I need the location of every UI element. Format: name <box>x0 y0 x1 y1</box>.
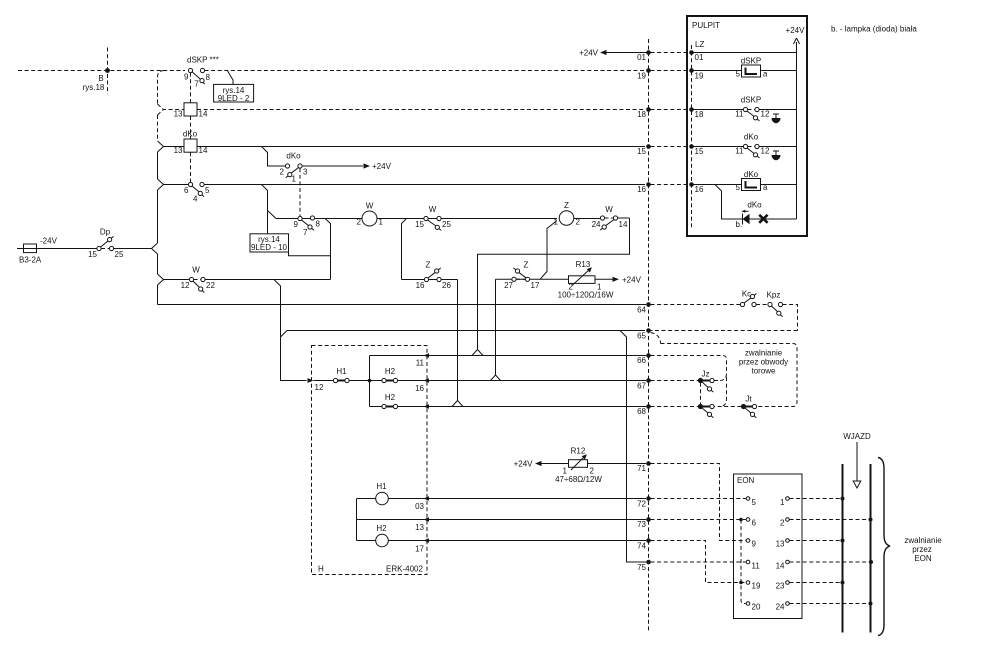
wire Z26 down <box>457 280 459 401</box>
svg-text:LZ: LZ <box>695 40 704 49</box>
svg-text:25: 25 <box>115 250 124 259</box>
svg-text:15: 15 <box>695 147 704 156</box>
buzzer symbol row 18 <box>773 114 779 118</box>
svg-text:przez: przez <box>912 545 932 554</box>
wire row 19 <box>692 70 797 72</box>
wire pin 1 to rail A <box>790 498 843 500</box>
wire Kc to Kpz <box>756 304 768 306</box>
svg-text:66: 66 <box>637 356 646 365</box>
wire node 66 to Jz column <box>651 356 727 407</box>
EON pin 23 <box>786 581 790 585</box>
svg-text:1: 1 <box>554 218 559 227</box>
svg-text:R12: R12 <box>571 447 586 456</box>
svg-text:16: 16 <box>416 281 425 290</box>
branch row16 down <box>262 185 268 234</box>
node 18 <box>646 107 651 112</box>
svg-text:-24V: -24V <box>40 237 58 246</box>
svg-text:03: 03 <box>415 502 424 511</box>
svg-text:67: 67 <box>637 382 646 391</box>
svg-text:H2: H2 <box>385 367 396 376</box>
wire Jz link vertical <box>700 383 702 405</box>
EON pin 24 <box>786 602 790 606</box>
node 72 <box>646 496 651 501</box>
switch 6-5-4 row 16 <box>188 182 192 186</box>
svg-text:14: 14 <box>199 110 208 119</box>
leader to box rys.14 <box>228 71 233 84</box>
svg-text:71: 71 <box>637 464 646 473</box>
wire link 6-20 <box>741 520 746 604</box>
svg-text:Jt: Jt <box>745 395 752 404</box>
wire left vertical lamps <box>356 499 358 541</box>
wire vertical to box top <box>267 211 269 234</box>
wire row 15 <box>692 146 797 148</box>
wire row 13 <box>357 519 428 521</box>
svg-text:5: 5 <box>736 70 741 79</box>
svg-text:Z: Z <box>524 261 529 270</box>
svg-text:2: 2 <box>357 218 362 227</box>
wire pin 12 entry <box>281 375 307 381</box>
buzzer symbol row 15 <box>773 151 779 155</box>
svg-text:68: 68 <box>637 407 646 416</box>
wire row 16 <box>158 179 646 190</box>
svg-text:Jz: Jz <box>702 370 710 379</box>
svg-text:12: 12 <box>181 281 190 290</box>
svg-text:przez obwody: przez obwody <box>739 358 788 367</box>
left bus branch from row 19 <box>158 71 165 105</box>
svg-text:9LED - 10: 9LED - 10 <box>251 243 288 252</box>
wire H2 to pin 16 <box>398 380 427 382</box>
svg-text:17: 17 <box>531 281 540 290</box>
wire vertical 11-14 <box>369 356 371 407</box>
wire pin 13 to rail A <box>790 540 843 542</box>
svg-text:25: 25 <box>442 220 451 229</box>
branch row15 to dKo switch <box>262 147 286 167</box>
arrow +24V right of R13 <box>613 277 620 282</box>
wire dashed pin9 down <box>190 73 192 103</box>
node 74 <box>646 538 651 543</box>
wire branch row16 into W row <box>268 211 277 219</box>
svg-text:dSKP ***: dSKP *** <box>187 56 219 65</box>
node 19 <box>646 68 651 73</box>
svg-text:15: 15 <box>637 147 646 156</box>
svg-text:Z: Z <box>426 261 431 270</box>
lamp X symbol <box>759 215 767 223</box>
junction peak row 66 <box>472 350 483 356</box>
svg-text:W: W <box>605 205 613 214</box>
arrow +24V left <box>600 50 607 55</box>
svg-text:13: 13 <box>776 540 785 549</box>
svg-text:+24V: +24V <box>622 275 642 284</box>
svg-text:rys.18: rys.18 <box>83 83 105 92</box>
switch 9-7-8 on W row <box>298 216 302 220</box>
rail B <box>870 464 872 633</box>
wire rows 66 67 68 to bus <box>429 356 646 407</box>
arrows into box right edge <box>424 353 430 542</box>
arrow into box pin 12 <box>308 378 314 383</box>
svg-text:b.: b. <box>736 220 743 229</box>
svg-text:16: 16 <box>415 384 424 393</box>
node 65 <box>646 328 651 333</box>
wire Z17 down <box>495 279 497 375</box>
rail A <box>842 464 844 633</box>
svg-text:9: 9 <box>184 73 189 82</box>
svg-text:torowe: torowe <box>751 367 776 376</box>
svg-text:a: a <box>763 183 768 192</box>
svg-text:11: 11 <box>416 359 425 368</box>
svg-text:14: 14 <box>776 562 785 571</box>
svg-text:9: 9 <box>294 220 299 229</box>
svg-text:75: 75 <box>637 563 646 572</box>
left bus row16-Dp <box>157 190 159 243</box>
svg-text:20: 20 <box>752 603 761 612</box>
wire H1 to H2 <box>349 380 382 382</box>
left bus row15-row16 <box>157 152 159 179</box>
svg-text:14: 14 <box>619 220 628 229</box>
node 67 <box>646 378 651 383</box>
wire pin 2 to rail B <box>790 519 871 521</box>
wire branch to 9LED-10 box <box>325 219 331 280</box>
wire dashed coil to coil <box>190 116 192 139</box>
EON pin 2 <box>786 518 790 522</box>
node 71 <box>646 461 651 466</box>
wire row 18 <box>692 109 797 111</box>
EON pin 11 <box>746 560 750 564</box>
left bus W12-row64 <box>157 285 159 305</box>
wire +24V tail at node 01 <box>606 52 648 54</box>
svg-text:ERK-4002: ERK-4002 <box>386 565 423 574</box>
EON pin 9 <box>746 539 750 543</box>
node 15 <box>646 144 651 149</box>
wire W14 loop down-left <box>478 218 630 350</box>
svg-text:8: 8 <box>206 73 211 82</box>
wire branch to Z16 row <box>402 219 407 280</box>
svg-text:b. - lampka (dioda) biała: b. - lampka (dioda) biała <box>831 25 917 34</box>
svg-text:18: 18 <box>637 110 646 119</box>
svg-text:16: 16 <box>637 185 646 194</box>
left bus Dp-W12 <box>157 254 159 274</box>
svg-text:7: 7 <box>303 228 308 237</box>
wire dashed row 19 right segment <box>205 70 646 72</box>
wire lamp H2 row 17 <box>357 540 428 542</box>
svg-text:22: 22 <box>206 281 215 290</box>
svg-text:19: 19 <box>637 72 646 81</box>
arrow +24V left of R12 <box>535 461 542 466</box>
svg-text:19: 19 <box>695 72 704 81</box>
fuse B3-2A <box>17 248 97 250</box>
svg-text:13: 13 <box>415 523 424 532</box>
EON pin 13 <box>786 539 790 543</box>
svg-text:11: 11 <box>735 110 744 119</box>
junction dots on pin6 wire <box>739 518 743 522</box>
wire rows 03 13 17 to bus <box>429 499 646 541</box>
relay coil SKP 13-14 <box>184 103 197 116</box>
main vertical bus line <box>648 39 650 632</box>
svg-text:5: 5 <box>205 186 210 195</box>
svg-text:13: 13 <box>174 146 183 155</box>
box PULPIT <box>687 16 807 236</box>
node 15 in pulpit <box>689 144 694 149</box>
wire node 72 to pin 5 <box>651 498 746 500</box>
node 01 in pulpit <box>689 50 694 55</box>
wire pin 14 row <box>370 406 428 408</box>
EON pin 14 <box>786 560 790 564</box>
wire row 16 <box>692 184 797 186</box>
wire to +24V arrow <box>302 165 363 167</box>
wire pin 24 to rail B <box>790 603 871 605</box>
svg-text:B: B <box>98 74 103 83</box>
svg-text:24: 24 <box>592 220 601 229</box>
svg-text:5: 5 <box>752 498 757 507</box>
EON pin 6 <box>746 518 750 522</box>
wire node 71 to EON pin 9 <box>651 464 746 541</box>
wire pin 14 to rail B <box>790 561 871 563</box>
svg-text:dSKP: dSKP <box>741 96 761 105</box>
svg-text:Kpz: Kpz <box>767 291 781 300</box>
svg-text:dKo: dKo <box>183 130 198 139</box>
svg-text:zwalnianie: zwalnianie <box>745 349 783 358</box>
switch Jz lower <box>698 404 702 408</box>
svg-text:6: 6 <box>184 186 189 195</box>
wire row 01 <box>692 52 797 54</box>
svg-text:01: 01 <box>695 53 704 62</box>
svg-text:72: 72 <box>637 500 646 509</box>
wire Z lamp branch down <box>540 221 557 280</box>
svg-text:47÷68Ω/12W: 47÷68Ω/12W <box>555 475 602 484</box>
svg-text:15: 15 <box>88 250 97 259</box>
branch W22 row down <box>274 280 281 375</box>
wire lamp H1 row 03 <box>357 498 428 500</box>
wire dashed row 18 <box>158 104 646 115</box>
junction dot <box>368 379 372 383</box>
svg-text:12: 12 <box>315 383 324 392</box>
svg-text:2: 2 <box>576 218 581 227</box>
svg-text:9: 9 <box>752 540 757 549</box>
wire row 64 to Kc <box>651 304 741 306</box>
node 75 <box>646 560 651 565</box>
svg-text:17: 17 <box>415 545 424 554</box>
wire node 65 elbow <box>651 333 798 407</box>
svg-text:64: 64 <box>637 306 646 315</box>
wire row 67 to Jz <box>651 380 699 382</box>
svg-text:W: W <box>429 205 437 214</box>
node 66 <box>646 353 651 358</box>
svg-text:4: 4 <box>193 195 198 204</box>
svg-text:74: 74 <box>637 542 646 551</box>
svg-text:Kc: Kc <box>742 290 751 299</box>
svg-text:W: W <box>192 266 200 275</box>
svg-text:11: 11 <box>735 147 744 156</box>
svg-text:8: 8 <box>316 220 321 229</box>
svg-text:13: 13 <box>174 110 183 119</box>
svg-text:9LED - 2: 9LED - 2 <box>218 94 250 103</box>
node 18 in pulpit <box>689 107 694 112</box>
svg-text:15: 15 <box>415 220 424 229</box>
svg-text:+24V: +24V <box>372 162 392 171</box>
svg-text:H2: H2 <box>376 524 387 533</box>
wire LED to X <box>750 218 797 220</box>
svg-text:12: 12 <box>761 110 770 119</box>
node 64 <box>646 302 651 307</box>
svg-text:a: a <box>763 70 768 79</box>
svg-text:24: 24 <box>776 603 785 612</box>
wire node 74 to pin 19 <box>651 541 746 583</box>
svg-text:2: 2 <box>780 519 785 528</box>
node 68 <box>646 404 651 409</box>
svg-text:dKo: dKo <box>744 133 759 142</box>
wire row 15 <box>158 141 646 152</box>
relay box ERK-4002 (H) <box>312 346 428 575</box>
svg-text:65: 65 <box>637 332 646 341</box>
wire row 64 <box>158 304 647 306</box>
svg-text:2: 2 <box>280 168 285 177</box>
svg-text:14: 14 <box>199 146 208 155</box>
svg-text:73: 73 <box>637 520 646 529</box>
svg-text:11: 11 <box>752 562 761 571</box>
svg-text:H2: H2 <box>385 393 396 402</box>
wire branch 65 to 75 <box>620 331 646 563</box>
EON pin 20 <box>746 602 750 606</box>
node 19 in pulpit <box>689 68 694 73</box>
svg-text:18: 18 <box>695 110 704 119</box>
svg-text:Z: Z <box>564 201 569 210</box>
EON pin 5 <box>746 497 750 501</box>
box rys.14 9LED-2 <box>214 84 254 102</box>
svg-text:W: W <box>366 202 374 211</box>
node 73 <box>646 517 651 522</box>
svg-text:3: 3 <box>303 168 308 177</box>
box rys.14 9LED-10 <box>250 234 289 252</box>
junction peak row 68 <box>452 401 463 407</box>
wire Z27 row <box>496 278 614 280</box>
svg-text:dSKP: dSKP <box>741 57 761 66</box>
svg-text:zwalnianie: zwalnianie <box>904 536 942 545</box>
wire Z16 row <box>402 279 458 281</box>
svg-text:26: 26 <box>442 281 451 290</box>
svg-text:H: H <box>318 565 324 574</box>
svg-text:01: 01 <box>637 53 646 62</box>
svg-text:23: 23 <box>776 582 785 591</box>
wire Kpz loop to node 65 <box>651 305 798 331</box>
wire branch row16 to LED <box>715 185 742 220</box>
wire Dp to bus <box>114 243 158 254</box>
wire row 65 <box>281 331 646 338</box>
svg-text:+24V: +24V <box>579 49 599 58</box>
left bus row18-row15 <box>157 115 159 141</box>
junction peak row 67 <box>491 375 501 381</box>
wire dashed coil to switch 6 <box>190 152 192 182</box>
svg-text:dKo: dKo <box>744 170 759 179</box>
svg-text:5: 5 <box>736 183 741 192</box>
svg-text:EON: EON <box>737 476 755 485</box>
svg-text:1: 1 <box>379 218 384 227</box>
svg-text:EON: EON <box>914 554 932 563</box>
node B <box>105 68 110 73</box>
wire node 73 to pin 6 <box>651 519 746 521</box>
svg-text:1: 1 <box>780 498 785 507</box>
svg-text:H1: H1 <box>376 482 387 491</box>
svg-text:12: 12 <box>761 147 770 156</box>
wire row W12-22 <box>158 274 331 285</box>
node 16 in pulpit <box>689 182 694 187</box>
svg-text:dKo: dKo <box>286 152 301 161</box>
svg-text:+24V: +24V <box>514 460 534 469</box>
svg-text:+24V: +24V <box>786 26 806 35</box>
wire row 68 to Jz <box>651 406 699 408</box>
brace zwalnianie przez EON <box>878 458 890 636</box>
svg-text:WJAZD: WJAZD <box>843 432 871 441</box>
svg-text:6: 6 <box>752 519 757 528</box>
svg-text:Dp: Dp <box>100 228 111 237</box>
svg-text:1: 1 <box>292 175 297 184</box>
wire W lamp row <box>276 217 630 220</box>
wire dashed dKo3 down to pin9 <box>299 168 301 216</box>
svg-text:dKo: dKo <box>747 201 762 210</box>
wire pin 23 to rail A <box>790 582 843 584</box>
wire pin 11 row <box>370 355 428 357</box>
svg-text:H1: H1 <box>336 367 347 376</box>
wire box to vertical <box>289 252 331 256</box>
svg-text:PULPIT: PULPIT <box>692 21 720 30</box>
arrow +24V right <box>364 163 371 168</box>
node 16 <box>646 182 651 187</box>
svg-text:27: 27 <box>504 281 513 290</box>
svg-text:19: 19 <box>752 582 761 591</box>
svg-text:7: 7 <box>194 80 199 89</box>
svg-text:100÷120Ω/16W: 100÷120Ω/16W <box>558 291 614 300</box>
wire Jt to Jz lower <box>714 406 741 408</box>
arrow WJAZD down <box>856 442 858 481</box>
svg-text:16: 16 <box>695 185 704 194</box>
svg-text:B3-2A: B3-2A <box>19 256 42 265</box>
EON pin 19 <box>746 581 750 585</box>
wires bus to PULPIT rows <box>651 53 690 185</box>
svg-text:R13: R13 <box>576 260 591 269</box>
wire top dashed row 19 left segment <box>18 70 185 72</box>
box EON <box>734 474 803 619</box>
EON pin 1 <box>786 497 790 501</box>
node 01 <box>646 50 651 55</box>
wire node 75 to pin 11 <box>651 561 746 563</box>
